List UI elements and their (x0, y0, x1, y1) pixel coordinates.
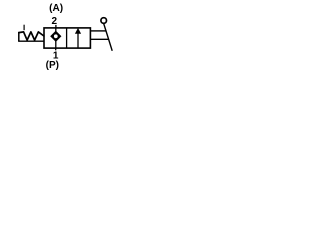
spring base line (18, 40, 44, 42)
roller (101, 18, 107, 24)
spring end plate (18, 32, 20, 42)
box divider (66, 28, 68, 48)
check valve (diamond with seat hole) (51, 31, 61, 41)
port 2 stub (55, 25, 57, 28)
actuator lower link (90, 38, 108, 40)
lever arm (104, 24, 113, 51)
svg-text:(P): (P) (46, 60, 59, 71)
actuator upper link (90, 30, 106, 32)
svg-text:(A): (A) (49, 3, 63, 14)
spring zigzag (19, 32, 44, 40)
port 1 stub (55, 48, 57, 50)
open-position flow arrow (77, 31, 79, 49)
svg-text:2: 2 (52, 16, 58, 27)
valve body outer rectangle (44, 28, 90, 48)
closed-position flow line (55, 28, 57, 48)
reference tick above spring (23, 25, 25, 31)
